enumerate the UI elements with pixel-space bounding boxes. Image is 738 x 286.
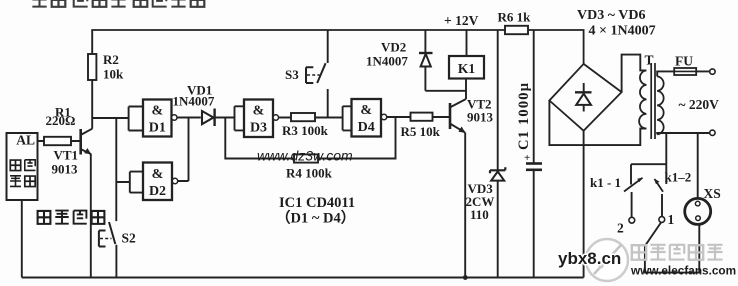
svg-text:XS: XS bbox=[704, 186, 721, 201]
transformer T bbox=[639, 53, 664, 140]
wire VT1 collector to D1 input bbox=[92, 117, 128, 119]
junction dot bbox=[463, 275, 468, 280]
switch S2 bbox=[99, 222, 136, 247]
svg-text:R5 10k: R5 10k bbox=[401, 124, 441, 139]
ground rail bbox=[22, 277, 584, 279]
svg-text:www.elecfans.com: www.elecfans.com bbox=[630, 264, 736, 278]
svg-text:VT1: VT1 bbox=[54, 148, 79, 163]
svg-text:&: & bbox=[360, 103, 372, 118]
wire VD1 to D3 input bbox=[216, 117, 235, 119]
svg-text:~ 220V: ~ 220V bbox=[679, 97, 720, 112]
svg-text:R4 100k: R4 100k bbox=[286, 166, 333, 181]
title (cut off at top) bbox=[32, 0, 204, 7]
wire neutral down to contacts bbox=[631, 133, 666, 184]
svg-text:1N4007: 1N4007 bbox=[366, 54, 408, 69]
diode VD2 (flyback) bbox=[366, 30, 466, 91]
svg-text:R6 1k: R6 1k bbox=[498, 10, 532, 25]
watermark elecfans logo bbox=[586, 239, 628, 281]
svg-text:&: & bbox=[253, 104, 265, 119]
svg-text:R3 100k: R3 100k bbox=[282, 123, 329, 138]
wire D2 output up to D1 output net bbox=[178, 118, 189, 182]
transistor VT2 bbox=[450, 97, 494, 133]
svg-text:VD3 ~ VD6: VD3 ~ VD6 bbox=[577, 8, 645, 23]
svg-text:T: T bbox=[645, 53, 654, 68]
socket XS bbox=[685, 133, 721, 224]
svg-text:ybx8.cn: ybx8.cn bbox=[558, 249, 621, 268]
IC designation label bbox=[276, 195, 355, 227]
terminal (220V line bottom) bbox=[710, 130, 715, 135]
switch S3 bbox=[285, 30, 328, 118]
svg-text:2: 2 bbox=[617, 221, 624, 236]
top +12V rail bbox=[91, 13, 583, 64]
svg-text:220Ω: 220Ω bbox=[46, 113, 76, 128]
watermark 电子发烧友 bbox=[632, 245, 723, 260]
svg-text:+ 12V: + 12V bbox=[444, 13, 479, 28]
wire primary bottom / neutral bbox=[657, 133, 710, 134]
svg-text:+: + bbox=[524, 152, 530, 164]
diode VD1 bbox=[173, 83, 215, 127]
meter box AL (电子闸表) bbox=[7, 133, 38, 201]
capacitor C1 1000u bbox=[516, 30, 542, 278]
bridge rectifier VD3~VD6 bbox=[549, 8, 655, 131]
svg-text:&: & bbox=[151, 104, 163, 119]
svg-text:4 × 1N4007: 4 × 1N4007 bbox=[589, 24, 656, 39]
svg-text:9013: 9013 bbox=[52, 162, 79, 177]
fuse FU bbox=[657, 54, 710, 77]
svg-text:www.dz3w.com: www.dz3w.com bbox=[257, 148, 353, 164]
svg-text:D3: D3 bbox=[250, 121, 267, 136]
nand gate D1 bbox=[129, 100, 177, 137]
resistor R5 bbox=[387, 113, 449, 139]
svg-text:R2: R2 bbox=[103, 52, 119, 67]
svg-text:k1 - 1: k1 - 1 bbox=[590, 175, 621, 190]
label 电池负极 bbox=[38, 211, 105, 224]
wire XS bottom loop to contact 1 bbox=[645, 223, 699, 273]
resistor R2 bbox=[88, 30, 124, 129]
svg-text:D2: D2 bbox=[149, 184, 166, 199]
relay coil K1 bbox=[449, 30, 484, 99]
wire VT2 emitter to ground bbox=[464, 133, 466, 278]
svg-text:FU: FU bbox=[675, 54, 693, 69]
resistor R3 bbox=[279, 113, 343, 138]
svg-text:1N4007: 1N4007 bbox=[173, 94, 215, 109]
svg-text:（D1 ~ D4）: （D1 ~ D4） bbox=[276, 209, 355, 227]
transistor VT1 bbox=[52, 129, 93, 177]
terminal (220V line top) bbox=[710, 69, 715, 74]
svg-text:S3: S3 bbox=[285, 67, 299, 82]
svg-text:9013: 9013 bbox=[467, 110, 494, 125]
relay contact k1-2 bbox=[655, 170, 692, 228]
svg-text:S2: S2 bbox=[122, 231, 137, 246]
svg-text:K1: K1 bbox=[458, 61, 476, 76]
svg-text:C1 1000μ: C1 1000μ bbox=[516, 82, 532, 150]
relay contact k1-1 bbox=[590, 164, 643, 235]
svg-text:10k: 10k bbox=[103, 67, 124, 82]
svg-text:AL: AL bbox=[16, 133, 35, 148]
resistor R4 (feedback) bbox=[225, 117, 395, 181]
svg-text:&: & bbox=[152, 167, 164, 182]
nand gate D4 bbox=[343, 99, 387, 137]
svg-text:k1–2: k1–2 bbox=[665, 170, 692, 185]
svg-text:1: 1 bbox=[668, 212, 675, 227]
svg-text:110: 110 bbox=[470, 207, 489, 222]
nand gate D3 bbox=[235, 100, 279, 138]
svg-text:D4: D4 bbox=[358, 120, 375, 135]
wire D1/D2 input branch down to S2 bbox=[116, 118, 130, 278]
svg-text:D1: D1 bbox=[149, 121, 166, 136]
wire VT1 emitter down bbox=[90, 154, 92, 278]
wire bridge right AC input to secondary top bbox=[622, 55, 647, 93]
svg-text:VD2: VD2 bbox=[381, 40, 406, 55]
wire AL box to ground rail bbox=[21, 200, 23, 278]
resistor R6 bbox=[498, 10, 532, 35]
wire bridge left AC input to secondary bottom bbox=[549, 101, 646, 146]
svg-text:IC1 CD4011: IC1 CD4011 bbox=[279, 195, 355, 211]
zener diode VD3 2CW110 bbox=[466, 30, 506, 278]
wire bridge bottom to ground rail bbox=[583, 131, 585, 278]
nand gate D2 bbox=[130, 163, 178, 201]
resistor R1 bbox=[38, 105, 80, 146]
wire D1 output to diode VD1 bbox=[177, 117, 201, 119]
